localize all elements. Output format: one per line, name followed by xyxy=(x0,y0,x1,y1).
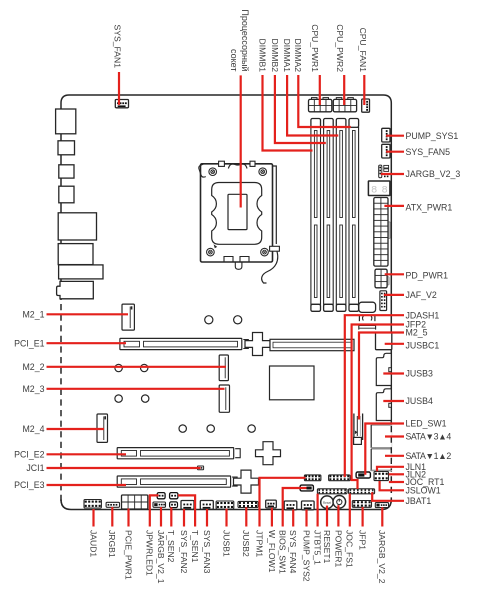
svg-text:PD_PWR1: PD_PWR1 xyxy=(406,271,449,281)
svg-text:DIMMA2: DIMMA2 xyxy=(293,39,303,73)
label line DIMMA1 xyxy=(287,75,338,136)
svg-text:JTBT5_1: JTBT5_1 xyxy=(313,530,323,565)
label line CPU_PWR2 xyxy=(343,75,345,105)
DIMM slot DIMMB2 xyxy=(324,119,334,312)
header JFP1 xyxy=(352,501,371,508)
header T_SEN1 xyxy=(170,493,178,499)
connector PD_PWR1 xyxy=(375,269,389,288)
svg-text:JUSB1: JUSB1 xyxy=(221,530,231,557)
header JAUD1 xyxy=(84,500,101,509)
svg-text:JUSB4: JUSB4 xyxy=(406,396,433,406)
svg-text:ATX_PWR1: ATX_PWR1 xyxy=(406,203,453,213)
svg-text:JARGB_V2_2: JARGB_V2_2 xyxy=(377,530,387,584)
slot PCI_E2 xyxy=(117,442,280,465)
label line JLN2 xyxy=(389,473,404,475)
label line JUSB4 xyxy=(383,400,404,402)
connector JUSB4 xyxy=(376,389,391,421)
label line SATA 1/2 xyxy=(385,455,404,457)
label line JARGB_V2_2 xyxy=(381,507,383,526)
label line JUSB3 xyxy=(383,372,404,374)
motherboard outline xyxy=(61,95,391,455)
header JPWRLED1 xyxy=(157,493,165,499)
svg-text:PCI_E3: PCI_E3 xyxy=(14,480,44,490)
label line RESET1 xyxy=(326,506,328,527)
label line W_FLOW1 xyxy=(271,508,273,527)
mounting hole 5 xyxy=(115,395,122,402)
slot PCI_E3 xyxy=(117,470,258,493)
label line SYS_FAN2 xyxy=(183,509,185,527)
I/O port 3 xyxy=(59,165,74,178)
label line JUSB2 xyxy=(245,507,247,526)
svg-text:JUSB2: JUSB2 xyxy=(241,530,251,557)
svg-text:JAF_V2: JAF_V2 xyxy=(406,290,437,300)
svg-text:BIOS_SW1: BIOS_SW1 xyxy=(278,530,288,574)
connector PCIE_PWR1 xyxy=(122,495,148,509)
connector SYS_FAN5 xyxy=(382,144,390,158)
svg-text:DIMMA1: DIMMA1 xyxy=(282,39,292,73)
svg-text:JBAT1: JBAT1 xyxy=(406,496,432,506)
header JLN1 / JLN2 xyxy=(374,472,389,481)
svg-text:RESET1: RESET1 xyxy=(322,530,332,564)
svg-text:JUSBC1: JUSBC1 xyxy=(406,341,440,351)
I/O port 5 xyxy=(58,213,96,240)
label line PD_PWR1 xyxy=(385,273,404,275)
header JARGB_V2_1 xyxy=(153,502,166,507)
connector CPU_PWR2 xyxy=(333,98,356,112)
label line SYS_FAN5 xyxy=(386,151,404,153)
label line T_SEN1 xyxy=(178,495,195,526)
mounting hole 2 xyxy=(234,316,242,324)
svg-text:M2_3: M2_3 xyxy=(22,384,44,394)
connector CPU_PWR1 xyxy=(309,98,332,112)
connector CPU_FAN1 xyxy=(362,99,370,112)
connector JUSBC1 xyxy=(376,332,392,350)
label line JAF_V2 xyxy=(384,294,404,296)
label line SYS_FAN3 xyxy=(206,509,208,527)
header T_SEN2 xyxy=(170,502,178,508)
svg-text:PCI_E2: PCI_E2 xyxy=(14,450,44,460)
svg-text:JRGB1: JRGB1 xyxy=(107,530,117,558)
svg-text:JARGB_V2_3: JARGB_V2_3 xyxy=(406,169,461,179)
header JDASH1 xyxy=(329,475,350,481)
svg-text:PCIE_PWR1: PCIE_PWR1 xyxy=(123,530,133,580)
mounting hole 6 xyxy=(142,395,149,402)
svg-text:M2_5: M2_5 xyxy=(406,328,428,338)
M2_5 screw standoff xyxy=(359,316,376,330)
CPU socket U1 xyxy=(199,161,280,283)
label line SYS_FAN1 xyxy=(118,72,120,105)
label line JPWRLED1 xyxy=(150,495,159,526)
svg-text:LED_SW1: LED_SW1 xyxy=(406,419,447,429)
I/O port 4 xyxy=(59,186,74,203)
M2_3 socket xyxy=(219,385,229,412)
PCI_E1 armor bar xyxy=(270,339,354,350)
svg-text:PCI_E1: PCI_E1 xyxy=(14,338,44,348)
connector PUMP_SYS1 xyxy=(382,128,390,142)
svg-text:JOC_FS1: JOC_FS1 xyxy=(345,530,355,568)
DIMM slot DIMMB1 xyxy=(311,119,321,312)
svg-text:T_SEN2: T_SEN2 xyxy=(166,530,176,563)
mounting hole 4 xyxy=(141,364,148,371)
svg-text:M2_1: M2_1 xyxy=(22,310,44,320)
switch LED_SW1 xyxy=(356,472,370,478)
header JBAT1 / JARGB_V2_2 xyxy=(375,503,388,508)
svg-text:SATA▼1▲2: SATA▼1▲2 xyxy=(406,451,452,461)
mounting hole 8 xyxy=(207,425,214,432)
svg-text:JPWRLED1: JPWRLED1 xyxy=(145,530,155,576)
svg-text:M2_2: M2_2 xyxy=(22,362,44,372)
svg-text:SYS_FAN5: SYS_FAN5 xyxy=(406,147,451,157)
connector PUMP_SYS2 xyxy=(302,501,315,510)
M2_1 socket xyxy=(122,304,134,330)
svg-text:PUMP_SYS1: PUMP_SYS1 xyxy=(406,131,459,141)
svg-text:CPU_PWR2: CPU_PWR2 xyxy=(335,24,345,72)
svg-text:JCI1: JCI1 xyxy=(26,463,44,473)
label line PCIE_PWR1 xyxy=(127,509,129,527)
connector SATA 3/4 xyxy=(371,425,392,448)
label line JFP2 xyxy=(352,325,404,490)
header JFP2 / JOC_FS1 xyxy=(349,489,375,494)
svg-text:JFP1: JFP1 xyxy=(358,530,368,550)
svg-text:88: 88 xyxy=(371,185,392,197)
DIMM slot DIMMA1 xyxy=(336,119,346,312)
label line PUMP_SYS2 xyxy=(305,510,307,527)
label line JCI1 xyxy=(47,467,201,469)
I/O port 2 xyxy=(58,141,75,155)
chipset xyxy=(270,366,315,400)
label line PCI_E3 xyxy=(47,484,127,486)
connector SYS_FAN1 xyxy=(115,100,128,108)
header JTPM1 xyxy=(304,475,321,481)
switch BIOS_SW1 xyxy=(300,485,313,491)
label line PCI_E2 xyxy=(47,453,127,455)
connector SYS_FAN2 xyxy=(181,501,194,510)
mounting hole 1 xyxy=(205,316,213,324)
svg-text:DIMMB2: DIMMB2 xyxy=(270,39,280,73)
label line SYS_FAN4 xyxy=(292,510,294,527)
label line ATX_PWR1 xyxy=(384,205,404,207)
label line PCI_E1 xyxy=(47,342,127,344)
label line JARGB_V2_3 xyxy=(381,173,404,175)
label line LED_SW1 xyxy=(365,424,404,475)
svg-text:JUSB3: JUSB3 xyxy=(406,369,433,379)
label line CPU_FAN1 xyxy=(363,75,365,105)
I/O port 6 xyxy=(58,244,93,265)
svg-text:сокет: сокет xyxy=(229,49,239,71)
M2_2 socket xyxy=(219,355,228,381)
label line JTBT5_1 xyxy=(317,494,319,527)
svg-text:SYS_FAN1: SYS_FAN1 xyxy=(112,25,122,69)
label line M2_2 xyxy=(47,366,227,368)
svg-text:DIMMB1: DIMMB1 xyxy=(257,39,267,73)
header JCI1 xyxy=(198,466,204,470)
DIMM slot DIMMA2 xyxy=(349,119,359,312)
label line JDASH1 xyxy=(345,315,404,477)
header JTBT5_1 xyxy=(317,489,347,494)
I/O audio jack xyxy=(57,281,94,298)
connector JARGB_V2_3 xyxy=(379,165,389,178)
button RESET1 xyxy=(321,496,334,509)
svg-text:JAUD1: JAUD1 xyxy=(88,530,98,557)
svg-text:W_FLOW1: W_FLOW1 xyxy=(267,530,277,573)
header JUSB2 xyxy=(238,501,258,507)
mounting hole 9 xyxy=(248,425,255,432)
svg-text:Процессорный: Процессорный xyxy=(240,9,250,71)
label line DIMMA2 xyxy=(298,75,351,127)
label line JAUD1 xyxy=(92,509,94,527)
svg-text:PUMP_SYS2: PUMP_SYS2 xyxy=(301,530,311,582)
svg-text:Reset: Reset xyxy=(323,501,331,505)
svg-text:POWER1: POWER1 xyxy=(333,530,343,567)
svg-text:M2_4: M2_4 xyxy=(22,424,44,434)
connector JUSB3 xyxy=(376,353,391,385)
mounting hole 3 xyxy=(115,364,122,371)
M2_4 socket xyxy=(97,414,108,442)
svg-text:CPU_PWR1: CPU_PWR1 xyxy=(310,24,320,72)
connector SATA 1/2 xyxy=(371,426,392,471)
svg-text:SYS_FAN2: SYS_FAN2 xyxy=(179,530,189,574)
label line JRGB1 xyxy=(111,507,113,527)
label line M2_3 xyxy=(47,388,225,390)
CMOS battery xyxy=(359,302,376,312)
label line JOC_FS1 xyxy=(349,494,351,527)
header JUSB1 xyxy=(216,501,234,509)
label line JFP1 xyxy=(362,507,364,527)
label line JLN1 xyxy=(377,467,404,472)
I/O port 1 xyxy=(56,109,76,134)
label line JOC_RT1 xyxy=(389,481,404,483)
header JRGB1 xyxy=(106,502,119,507)
label line POWER1 xyxy=(337,505,339,526)
label line JUSBC1 xyxy=(385,343,404,345)
I/O port 7 xyxy=(59,265,103,279)
label line JSLOW1 xyxy=(380,481,404,490)
connector W_FLOW1 xyxy=(266,500,277,508)
svg-text:CPU_FAN1: CPU_FAN1 xyxy=(358,28,368,73)
M2_5 socket xyxy=(354,414,363,445)
debug LED display xyxy=(368,181,392,197)
connector ATX_PWR1 xyxy=(374,198,390,267)
connector JAF_V2 xyxy=(380,291,387,311)
label line CPU_PWR1 xyxy=(319,75,321,105)
label line M2_1 xyxy=(47,313,129,315)
label line T_SEN2 xyxy=(170,507,172,526)
label line M2_5 xyxy=(359,333,404,420)
slot PCI_E1 xyxy=(120,333,270,356)
label line PUMP_SYS1 xyxy=(386,135,404,137)
svg-text:SYS_FAN3: SYS_FAN3 xyxy=(202,530,212,574)
svg-text:SATA▼3▲4: SATA▼3▲4 xyxy=(406,432,452,442)
label line DIMMB1 xyxy=(263,75,313,151)
label line M2_4 xyxy=(47,428,105,430)
label line SATA 3/4 xyxy=(385,435,404,437)
svg-text:JSLOW1: JSLOW1 xyxy=(406,486,441,496)
svg-text:T_SEN1: T_SEN1 xyxy=(190,530,200,563)
label line JARGB_V2_1 xyxy=(160,507,162,527)
label line JTPM1 xyxy=(260,478,306,527)
svg-text:JARGB_V2_1: JARGB_V2_1 xyxy=(156,530,166,584)
svg-text:SYS_FAN4: SYS_FAN4 xyxy=(288,530,298,574)
mounting hole 7 xyxy=(179,425,186,432)
svg-text:JTPM1: JTPM1 xyxy=(254,530,264,557)
connector SYS_FAN4 xyxy=(284,501,297,510)
label line JBAT1 xyxy=(372,492,404,501)
label line BIOS_SW1 xyxy=(283,488,307,527)
label line CPU socket xyxy=(240,75,242,207)
label line DIMMB2 xyxy=(275,75,326,143)
button POWER1 xyxy=(333,496,346,509)
connector SYS_FAN3 xyxy=(200,501,213,510)
label line JUSB1 xyxy=(225,509,227,527)
